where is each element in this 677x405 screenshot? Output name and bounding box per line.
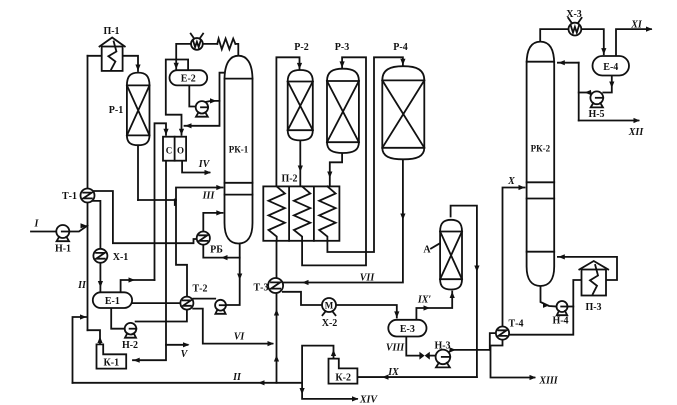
label T-1 xyxy=(62,191,77,202)
pump below E-2 xyxy=(196,101,208,117)
label RB xyxy=(210,245,223,256)
heat exchanger T-4 xyxy=(496,327,509,340)
furnace P-2 3-cell box xyxy=(263,186,339,240)
wire P-2 cell2 to reactor R-3 xyxy=(302,57,366,265)
svg-text:X: X xyxy=(507,176,515,187)
svg-text:XIII: XIII xyxy=(538,376,558,387)
wire main feed riser to furnace P-1 xyxy=(87,56,89,330)
reactor R-1 xyxy=(127,73,150,146)
svg-text:Е-2: Е-2 xyxy=(181,74,196,85)
svg-text:II: II xyxy=(232,372,242,383)
cooler X-1 xyxy=(93,249,107,263)
pump H-3 xyxy=(436,350,451,368)
svg-text:Т-1: Т-1 xyxy=(62,191,77,202)
svg-text:Е-4: Е-4 xyxy=(603,62,618,73)
svg-text:Е-1: Е-1 xyxy=(105,296,120,307)
wire furnace P-1 outlet to reactor R-1 xyxy=(123,56,141,71)
label IX-prime xyxy=(417,295,432,306)
svg-text:II: II xyxy=(77,280,87,291)
label VIII xyxy=(386,343,405,354)
label E-3 xyxy=(400,324,415,335)
wire stream IV outlet xyxy=(182,161,211,175)
furnace P-2 coil 1 xyxy=(269,186,285,240)
wire T-4 shell side to hot bottoms xyxy=(509,280,582,335)
label E-4 xyxy=(603,62,618,73)
label R-3 xyxy=(335,42,349,53)
wire stream IX into compressor K-2 xyxy=(357,376,477,378)
svg-text:РК-2: РК-2 xyxy=(531,144,551,154)
wire reactor R-3 outlet to P-2 cell3 xyxy=(327,153,342,187)
reactor R-3 xyxy=(327,69,359,153)
svg-text:VI: VI xyxy=(234,332,246,343)
label P-2 xyxy=(281,174,297,185)
label VI xyxy=(234,332,246,343)
wire P-2 cell3 to reactor R-4 xyxy=(327,57,405,252)
wire stream I to pump H-1 xyxy=(31,231,56,233)
wire column RK-1 overhead through condenser xyxy=(235,44,238,56)
svg-text:IV: IV xyxy=(198,159,211,170)
wire T-2 to bottoms pump xyxy=(193,298,215,300)
svg-text:П-3: П-3 xyxy=(585,302,601,313)
wire reflux riser and XII drop xyxy=(578,63,580,121)
air cooler W (overhead condenser) xyxy=(191,34,203,50)
wire vessel E-1 vapor line xyxy=(121,277,155,292)
svg-text:VIII: VIII xyxy=(386,343,405,354)
label RK-1 xyxy=(229,145,249,155)
wire T-2 bottom to pump H-2 line xyxy=(136,310,187,322)
svg-text:XIV: XIV xyxy=(359,395,379,405)
heat exchanger T-1 xyxy=(81,189,95,203)
label II bottom xyxy=(232,372,242,383)
wire stream VIII E-3 bottom to valve xyxy=(406,337,419,356)
svg-text:М: М xyxy=(325,301,334,311)
furnace P-2 coil 3 xyxy=(319,186,335,240)
wire reactor R-4 outlet stream VII to T-3 xyxy=(283,159,405,285)
svg-text:Х-3: Х-3 xyxy=(566,9,582,20)
label X-3 xyxy=(566,9,582,20)
svg-text:К-1: К-1 xyxy=(104,358,120,369)
wire stream VI from T-2 xyxy=(193,309,274,347)
vessel E-3 xyxy=(388,320,426,337)
svg-text:Т-3: Т-3 xyxy=(254,283,269,294)
wire reflux into column RK-2 xyxy=(558,60,579,65)
label R-2 xyxy=(294,42,308,53)
wire compressor K-1 discharge to feed line xyxy=(88,330,103,344)
vessel E-4 xyxy=(593,56,630,76)
wire T-4 bottom outlet stream XIII xyxy=(491,340,537,381)
furnace P-3 xyxy=(579,261,608,296)
svg-text:Р-1: Р-1 xyxy=(109,105,123,116)
label I xyxy=(34,219,40,230)
wire vessel E-4 bottom to pump H-5 xyxy=(603,76,614,93)
wire P-2 cell1 riser to reactor R-2 xyxy=(276,57,302,186)
wire coil to air cooler W xyxy=(203,43,218,45)
svg-text:Х-1: Х-1 xyxy=(113,252,129,263)
wire reactor R-1 outlet down xyxy=(137,145,139,200)
pump beside T-2 xyxy=(215,300,226,314)
wire R-1 outlet to column RK-1 feed line xyxy=(138,199,176,201)
wire column RK-2 bottoms to pump H-4 xyxy=(541,286,557,308)
label T-4 xyxy=(509,319,524,330)
reactor R-2 xyxy=(288,70,313,140)
wire column RK-2 overhead to cooler X-3 and E-4 xyxy=(540,29,568,43)
svg-text:Н-1: Н-1 xyxy=(55,244,71,255)
wire stream XII outlet xyxy=(579,118,640,123)
label O xyxy=(177,145,184,155)
svg-text:Т-2: Т-2 xyxy=(193,284,208,295)
wire air cooler W to vessel E-2 xyxy=(174,44,192,69)
svg-text:Р-4: Р-4 xyxy=(393,42,407,53)
wire T-1 to cooler X-1 and vessel E-1 xyxy=(92,201,103,292)
wire pump H-1 to main feed line xyxy=(69,223,87,231)
label P-1 xyxy=(103,26,119,37)
pump H-4 xyxy=(557,301,568,315)
wire T-4 tube outlet stream X to column RK-2 xyxy=(503,185,526,327)
wire separator C bottom to compressor K-1 xyxy=(133,161,166,363)
label II left xyxy=(77,280,87,291)
compressor K-2 xyxy=(329,359,358,384)
label XI xyxy=(630,20,643,31)
svg-text:Х-2: Х-2 xyxy=(322,318,338,329)
label X xyxy=(507,176,515,187)
wire T-3 to air cooler X-2 xyxy=(283,292,322,305)
condenser coil zigzag xyxy=(217,39,235,50)
label XIII xyxy=(538,376,558,387)
label H-3 xyxy=(434,341,450,352)
wire P-2 cell1 bottom to T-3 xyxy=(276,241,278,278)
label RK-2 xyxy=(531,144,551,154)
wire furnace P-1 inlet xyxy=(88,55,102,57)
wire vessel E-2 bottom to pump xyxy=(189,85,196,106)
svg-text:О: О xyxy=(177,145,184,155)
svg-text:П-2: П-2 xyxy=(281,174,297,185)
svg-text:К-2: К-2 xyxy=(335,372,351,383)
label H-5 xyxy=(588,109,604,120)
label T-3 xyxy=(254,283,269,294)
label C xyxy=(166,145,173,155)
svg-text:Н-2: Н-2 xyxy=(122,340,138,351)
svg-text:IX: IX xyxy=(387,367,399,378)
separator C / adsorber O box xyxy=(163,137,186,161)
svg-text:П-1: П-1 xyxy=(103,26,119,37)
wire vessel E-2 vapor to adsorber O xyxy=(166,60,188,136)
wire furnace P-3 return to column RK-2 xyxy=(558,254,617,280)
label IV xyxy=(198,159,211,170)
svg-text:VII: VII xyxy=(360,273,376,284)
reboiler RB xyxy=(197,232,210,245)
svg-text:А: А xyxy=(423,245,431,256)
label E-2 xyxy=(181,74,196,85)
wire cooler X-3 to vessel E-4 xyxy=(581,29,606,54)
wire T-2 top riser and feed to column RK-1 xyxy=(176,185,223,297)
label XIV xyxy=(359,395,379,405)
reactor R-4 xyxy=(382,66,424,159)
svg-text:XII: XII xyxy=(628,127,645,138)
label A with pointer xyxy=(423,244,439,256)
svg-text:Т-4: Т-4 xyxy=(509,319,524,330)
wire valve to pump H-3 xyxy=(430,355,436,357)
svg-text:III: III xyxy=(202,191,216,202)
wire T-1 shell side to reboiler RB xyxy=(92,191,197,243)
svg-text:Н-3: Н-3 xyxy=(434,341,450,352)
vessel E-2 xyxy=(170,70,208,85)
furnace P-1 xyxy=(100,38,125,71)
wire vessel E-1 bottom to pump H-2 xyxy=(111,308,125,329)
label R-1 xyxy=(109,105,123,116)
wire T-3 bottom riser from stream II xyxy=(274,293,279,383)
svg-text:Н-4: Н-4 xyxy=(552,316,568,327)
air cooler X-3 xyxy=(568,18,581,36)
svg-text:XI: XI xyxy=(630,20,643,31)
label VII xyxy=(360,273,376,284)
wire reboiler RB draw from column bottoms xyxy=(203,245,239,261)
wire stream IX-prime E-3 to adsorber A xyxy=(416,292,454,320)
label III xyxy=(202,191,216,202)
label X-1 xyxy=(113,252,129,263)
pump H-1 xyxy=(56,225,69,241)
wire pump H-4 discharge xyxy=(568,306,574,308)
label K-1 xyxy=(104,358,120,369)
wire E-2 pump discharge xyxy=(206,98,220,103)
heat exchanger T-3 xyxy=(268,278,283,293)
wire stream V branch xyxy=(166,342,190,347)
wire stream XI outlet xyxy=(616,27,653,57)
wire stream II horizontal xyxy=(73,380,303,385)
pump H-5 xyxy=(590,91,603,107)
wire column RK-1 bottoms to pump xyxy=(226,244,242,306)
wire reboiler RB vapor return to column RK-1 xyxy=(203,210,223,231)
label IX xyxy=(387,367,399,378)
svg-text:РБ: РБ xyxy=(210,245,223,256)
wire riser into T-4 shell xyxy=(490,333,497,350)
svg-text:Н-5: Н-5 xyxy=(588,109,604,120)
column RK-1 xyxy=(225,56,253,244)
label H-2 xyxy=(122,340,138,351)
label P-3 xyxy=(585,302,601,313)
svg-text:Р-3: Р-3 xyxy=(335,42,349,53)
svg-text:IX′: IX′ xyxy=(417,295,432,306)
wire separator C feed riser xyxy=(155,123,169,280)
label V xyxy=(181,349,189,360)
air cooler X-2 with motor xyxy=(322,298,336,315)
pump H-2 xyxy=(125,323,137,338)
furnace P-2 coil 2 xyxy=(294,186,310,240)
adsorber A xyxy=(440,220,462,290)
wire compressor K-2 discharge loop to II and XIV xyxy=(300,346,359,402)
svg-text:Р-2: Р-2 xyxy=(294,42,308,53)
vessel E-1 xyxy=(93,292,132,308)
wire column RK-1 side draw to adsorber O xyxy=(185,73,225,129)
wire stream III feed to column RK-1 xyxy=(174,200,176,206)
label T-2 xyxy=(193,284,208,295)
valve on stream VIII xyxy=(419,352,429,360)
wire stream II left riser xyxy=(73,314,87,382)
label R-4 xyxy=(393,42,407,53)
wire pump H-3 discharge to T-4 xyxy=(449,347,490,352)
label H-1 xyxy=(55,244,71,255)
wire vessel E-1 to T-2 shell xyxy=(132,302,180,304)
svg-text:С: С xyxy=(166,145,173,155)
svg-text:Е-3: Е-3 xyxy=(400,324,415,335)
label E-1 xyxy=(105,296,120,307)
wire reactor R-2 outlet to P-2 cell2 xyxy=(298,140,303,186)
heat exchanger T-2 xyxy=(180,297,193,310)
wire air cooler X-2 to vessel E-3 xyxy=(336,305,399,318)
label X-2 xyxy=(322,318,338,329)
column RK-2 xyxy=(527,42,555,286)
compressor K-1 xyxy=(97,344,127,368)
label H-4 xyxy=(552,316,568,327)
label XII xyxy=(628,127,645,138)
svg-text:РК-1: РК-1 xyxy=(229,145,249,155)
wire pump H-5 to reflux and stream XII xyxy=(579,90,591,95)
label K-2 xyxy=(335,372,351,383)
wire adsorber A gas to stream IX and compressor K-2 xyxy=(359,206,480,380)
